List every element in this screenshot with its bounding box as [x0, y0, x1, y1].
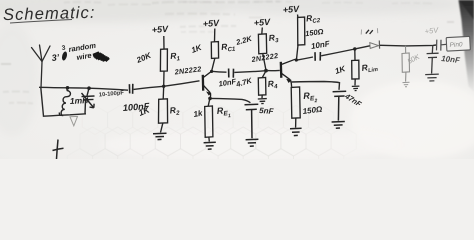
ground (Rlim) [352, 86, 360, 91]
resistor R4 4.7K [258, 71, 266, 98]
resistor RE1 1k [205, 99, 213, 142]
wire: tank bottom [41, 88, 86, 117]
node: Q1 collector [210, 70, 213, 73]
diode D1 [370, 41, 380, 49]
wire: Q2 collector to 10nF out [295, 57, 313, 60]
title "Schematic:" [3, 4, 96, 24]
node: Q1 emitter [208, 97, 212, 101]
node B: R3/R4/base junction [264, 69, 268, 73]
ground (5nF) [246, 139, 259, 146]
capacitor 47nF [333, 91, 347, 120]
svg-text:+5V: +5V [424, 25, 440, 36]
resistor RE2 150 [291, 87, 300, 128]
wire: diode to output network [356, 45, 437, 49]
transistor Q2 2N2222 [281, 59, 295, 87]
wire: main line antenna to 100nF cap [39, 87, 128, 90]
resistor Rlim 1K [352, 49, 359, 85]
capacitor 10nF (interstage) [229, 69, 234, 78]
ground (RE2) [290, 128, 302, 135]
variable capacitor 10-100pF [82, 88, 95, 114]
wire: 10nF to node B [234, 71, 265, 73]
wire: node B to Q2 base [267, 69, 280, 71]
ground (50K, faint) [403, 82, 410, 87]
ground (R2) [153, 133, 167, 139]
wire: 10nF to Rlim node to diode [321, 49, 355, 56]
svg-text:+5V: +5V [202, 18, 220, 29]
decorative: paper background, watermark, bleed-through (unlabelled) [0, 0, 474, 178]
svg-text:Pin0: Pin0 [449, 41, 463, 49]
wire: Q1 collector to 10nF [212, 70, 227, 73]
capacitor (series to Pin0) [437, 40, 447, 51]
resistor R3 2.2K [258, 28, 266, 71]
ground (tank) [70, 116, 78, 125]
stray handwriting (bottom, cut off) [53, 140, 64, 160]
svg-text:5nF: 5nF [259, 106, 275, 116]
resistor Rc1 1K [211, 29, 218, 72]
transistor Q1 2N2222 [203, 71, 212, 98]
ground (output cap) [425, 74, 439, 81]
svg-text:+5V: +5V [282, 4, 300, 15]
resistor R1 20K [160, 36, 167, 86]
capacitor 10nF (output RC) [427, 45, 439, 73]
resistor R2 1K [159, 86, 168, 132]
label marks above diode [361, 28, 378, 34]
capacitor 100nF (series) [129, 84, 132, 94]
node: varcap tap [87, 86, 91, 90]
svg-text:+5V: +5V [253, 17, 271, 28]
node: R1/R2 divider [162, 85, 165, 88]
svg-text:+5V: +5V [151, 24, 169, 35]
wire: cap to base node to Q1 base [134, 81, 200, 90]
node: Rlim tap [353, 47, 356, 50]
antenna [32, 45, 51, 88]
wire: Q1 emitter to 5nF [211, 98, 251, 102]
ground (RE1) [204, 142, 216, 149]
ground (R4) [258, 99, 267, 104]
capacitor 10nF (output coupling) [315, 52, 320, 61]
ground (47nF) [332, 122, 345, 129]
node: Q2 collector [295, 58, 298, 61]
output box Pin0 [446, 36, 470, 51]
resistor 50K (faint) [402, 46, 410, 82]
wire: Q2 emitter to 47nF [292, 82, 340, 90]
capacitor 5nF [245, 104, 259, 138]
node: inductor tap [66, 86, 70, 90]
title underline flourish [10, 20, 72, 24]
antenna label "3' random wire" with scribble [51, 41, 109, 63]
resistor Rc2 150 [296, 15, 304, 61]
inductor L 1mH [59, 88, 70, 116]
